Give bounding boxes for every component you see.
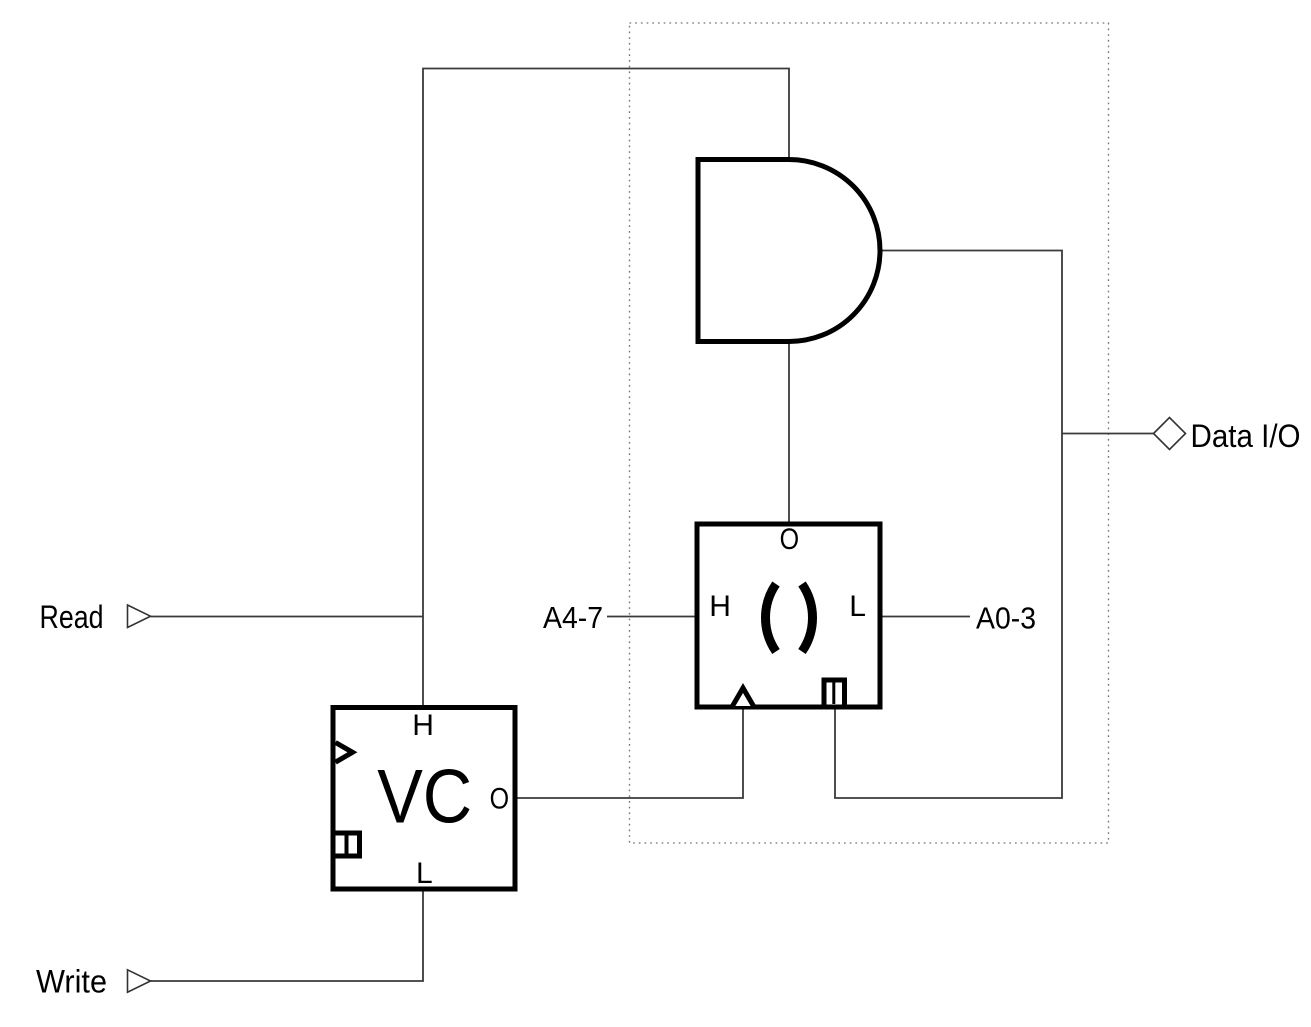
svg-text:A0-3: A0-3	[976, 600, 1036, 635]
svg-text:H: H	[709, 590, 731, 623]
svg-text:Data I/O: Data I/O	[1191, 418, 1301, 454]
svg-text:O: O	[490, 782, 510, 815]
svg-text:H: H	[412, 709, 434, 742]
svg-text:L: L	[416, 857, 433, 890]
svg-text:VC: VC	[377, 754, 472, 839]
svg-text:O: O	[780, 523, 800, 556]
svg-text:L: L	[849, 590, 866, 623]
svg-text:A4-7: A4-7	[543, 600, 603, 635]
svg-text:Write: Write	[36, 964, 107, 1000]
svg-text:Read: Read	[40, 599, 104, 635]
